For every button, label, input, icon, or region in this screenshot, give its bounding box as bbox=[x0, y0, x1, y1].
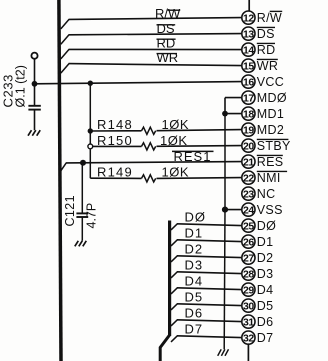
node: RES1/C121 junction dot bbox=[80, 160, 86, 166]
bus entry stub + wire D3 bbox=[171, 272, 177, 278]
svg-text:D1: D1 bbox=[185, 225, 204, 240]
pin 14 circle bbox=[242, 43, 255, 56]
svg-text:RES: RES bbox=[257, 155, 284, 169]
pin 30 circle bbox=[242, 299, 255, 312]
left address/control bus (vertical) bbox=[59, 0, 61, 361]
svg-text:DS: DS bbox=[157, 21, 175, 36]
svg-text:MD2: MD2 bbox=[257, 123, 284, 137]
capacitor C121 bbox=[76, 212, 88, 214]
wire VCC junction down to C233 bbox=[34, 84, 36, 105]
svg-text:D7: D7 bbox=[185, 321, 204, 336]
svg-text:R149: R149 bbox=[97, 165, 133, 180]
bus entry stub + wire RD bbox=[61, 49, 69, 59]
wire VCC to pin 16 bbox=[35, 82, 242, 84]
svg-text:D4: D4 bbox=[185, 273, 204, 288]
pin 24 circle bbox=[242, 203, 255, 216]
wire from top edge to pin 12 bbox=[248, 0, 250, 11]
svg-text:C121: C121 bbox=[63, 195, 77, 226]
pin 32 circle bbox=[242, 331, 255, 344]
svg-text:16: 16 bbox=[243, 76, 254, 88]
svg-text:VCC: VCC bbox=[257, 75, 284, 89]
svg-text:19: 19 bbox=[243, 124, 254, 136]
wire RES1 to pin 21 bbox=[66, 162, 241, 163]
svg-text:DØ: DØ bbox=[185, 209, 207, 224]
node: VSS junction dot bbox=[222, 207, 228, 213]
bus entry stub + wire D6 bbox=[171, 320, 177, 326]
svg-text:D7: D7 bbox=[257, 331, 274, 345]
svg-text:DØ: DØ bbox=[257, 219, 276, 233]
svg-text:RD: RD bbox=[257, 43, 276, 57]
data bus jog to bottom edge bbox=[160, 335, 169, 361]
svg-text:D3: D3 bbox=[257, 267, 274, 281]
svg-text:MDØ: MDØ bbox=[257, 91, 287, 105]
bus entry stub (RES1) bbox=[61, 163, 66, 171]
svg-text:14: 14 bbox=[243, 44, 254, 56]
bus entry stub + wire DS bbox=[61, 35, 69, 45]
resistor R149 10K (to pin 22 NMI) bbox=[90, 177, 141, 179]
svg-text:1ØK: 1ØK bbox=[162, 165, 190, 180]
svg-text:R/W: R/W bbox=[155, 6, 181, 21]
svg-text:NMI: NMI bbox=[257, 171, 281, 185]
bus entry stub + wire D4 bbox=[171, 288, 177, 294]
pin 31 circle bbox=[242, 315, 255, 328]
svg-text:STBY: STBY bbox=[257, 139, 291, 153]
svg-text:25: 25 bbox=[243, 220, 254, 232]
pin 12 circle bbox=[242, 11, 255, 24]
wire terminal to VCC node bbox=[34, 59, 36, 84]
svg-text:29: 29 bbox=[243, 284, 254, 296]
svg-text:13: 13 bbox=[243, 28, 254, 40]
svg-text:27: 27 bbox=[243, 252, 254, 264]
svg-text:D5: D5 bbox=[185, 289, 204, 304]
pin 26 circle bbox=[242, 235, 255, 248]
ground (C233) bbox=[28, 130, 32, 136]
svg-text:15: 15 bbox=[243, 60, 254, 72]
svg-text:18: 18 bbox=[243, 108, 254, 120]
wire pin 17 MD0 bracket bbox=[225, 97, 241, 99]
svg-text:1ØK: 1ØK bbox=[160, 133, 188, 148]
node: VCC/C233 junction dot bbox=[32, 81, 38, 87]
bus entry stub + wire WR bbox=[61, 64, 69, 74]
svg-text:RD: RD bbox=[157, 36, 176, 51]
svg-text:31: 31 bbox=[243, 316, 254, 328]
pin 28 circle bbox=[242, 267, 255, 280]
pin 21 circle bbox=[242, 155, 255, 168]
svg-text:17: 17 bbox=[243, 92, 254, 104]
data bus (vertical) bbox=[168, 221, 171, 337]
svg-text:R148: R148 bbox=[97, 117, 133, 132]
svg-text:D1: D1 bbox=[257, 235, 274, 249]
svg-text:4.7P: 4.7P bbox=[85, 203, 99, 229]
svg-text:28: 28 bbox=[243, 268, 254, 280]
node: MD0/MD1 junction dot bbox=[222, 111, 228, 117]
svg-text:R/W: R/W bbox=[257, 11, 282, 25]
svg-text:26: 26 bbox=[243, 236, 254, 248]
pin 17 circle bbox=[242, 91, 255, 104]
pin 15 circle bbox=[242, 59, 255, 72]
node: VCC / resistor-chain junction dot bbox=[88, 81, 93, 86]
svg-text:22: 22 bbox=[243, 172, 254, 184]
pin 23 circle bbox=[242, 187, 255, 200]
pin 18 circle bbox=[242, 107, 255, 120]
pin 29 circle bbox=[242, 283, 255, 296]
svg-text:D6: D6 bbox=[257, 315, 274, 329]
capacitor C233 bbox=[28, 105, 40, 107]
bus entry stub + wire D2 bbox=[171, 256, 177, 262]
pin 27 circle bbox=[242, 251, 255, 264]
svg-text:D4: D4 bbox=[257, 283, 274, 297]
bus entry stub + wire D1 bbox=[171, 240, 177, 246]
ground (VSS rail) bbox=[218, 349, 222, 356]
wire MD1 junction down to VSS node (ground rail) bbox=[224, 114, 226, 210]
pin 16 circle bbox=[242, 75, 255, 88]
pin 25 circle bbox=[242, 219, 255, 232]
svg-text:D2: D2 bbox=[185, 241, 204, 256]
svg-text:WR: WR bbox=[257, 59, 278, 73]
svg-text:32: 32 bbox=[243, 332, 254, 344]
svg-text:D5: D5 bbox=[257, 299, 274, 313]
svg-text:MD1: MD1 bbox=[257, 107, 284, 121]
wire RES1 node down to C121 bbox=[81, 163, 83, 214]
svg-text:20: 20 bbox=[243, 140, 254, 152]
wire from pin 32 to bottom edge bbox=[247, 344, 249, 361]
bus entry stub + wire D7 bbox=[171, 336, 177, 342]
pin 20 circle bbox=[242, 139, 255, 152]
svg-text:DS: DS bbox=[257, 27, 275, 41]
ground (C121) bbox=[75, 241, 79, 247]
svg-text:21: 21 bbox=[243, 156, 254, 168]
svg-text:VSS: VSS bbox=[257, 203, 283, 217]
svg-text:D6: D6 bbox=[185, 305, 204, 320]
wire C121 to ground bbox=[81, 217, 83, 241]
wire R148 node down to ring terminal bbox=[89, 131, 91, 144]
svg-text:R150: R150 bbox=[97, 133, 133, 148]
svg-text:1ØK: 1ØK bbox=[162, 117, 190, 132]
pin 19 circle bbox=[242, 123, 255, 136]
bus entry stub + wire R/W bbox=[61, 19, 69, 29]
input terminal (open circle) bbox=[31, 53, 37, 59]
svg-text:24: 24 bbox=[243, 204, 254, 216]
svg-text:23: 23 bbox=[243, 188, 254, 200]
wire C233 to ground bbox=[34, 110, 36, 131]
wire junction to pin 18 MD1 bbox=[225, 113, 241, 115]
svg-text:WR: WR bbox=[157, 50, 179, 65]
svg-text:D2: D2 bbox=[257, 251, 274, 265]
resistor R150 10K (to pin 20 STBY) bbox=[93, 145, 142, 147]
svg-text:Ø.1 (t2): Ø.1 (t2) bbox=[14, 65, 28, 107]
wire VCC down to R148 bbox=[89, 83, 91, 131]
svg-text:D3: D3 bbox=[185, 257, 204, 272]
svg-text:30: 30 bbox=[243, 300, 254, 312]
node: R148 junction dot bbox=[88, 128, 93, 133]
resistor R148 10K (to pin 19 MD2) bbox=[90, 130, 141, 132]
wire ring down to R149 corner bbox=[89, 149, 91, 178]
pin 22 circle bbox=[242, 171, 255, 184]
bus entry stub + wire D0 bbox=[171, 224, 177, 230]
wire VSS node to pin 24 bbox=[225, 209, 241, 211]
wire VSS node down to ground bbox=[223, 210, 226, 350]
svg-text:NC: NC bbox=[257, 187, 276, 201]
terminal ring (R150 left end) bbox=[88, 144, 93, 149]
pin 13 circle bbox=[242, 27, 255, 40]
bus entry stub + wire D5 bbox=[171, 304, 177, 310]
svg-text:12: 12 bbox=[243, 12, 254, 24]
